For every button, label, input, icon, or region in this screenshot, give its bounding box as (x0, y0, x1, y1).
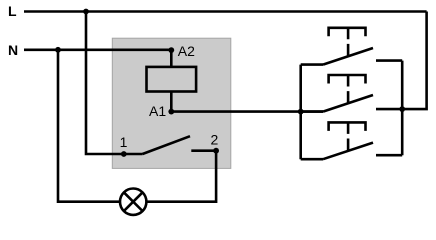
push-button S2 fixed stub (376, 108, 402, 111)
push-button S2 lead (301, 110, 323, 113)
terminal 2 (213, 148, 219, 154)
push-button S3 fixed stub (376, 154, 402, 157)
wire N branch down to lamp (58, 50, 120, 202)
svg-text:L: L (8, 3, 17, 19)
junction L branch (83, 9, 89, 15)
terminal A1 (168, 109, 174, 115)
push-button S1 actuator bracket (329, 28, 366, 37)
coil K1 body (147, 67, 197, 92)
push-button S1 lead (301, 63, 323, 66)
push-button S1 blade (323, 48, 373, 65)
terminal 1 (121, 151, 127, 157)
terminal A2 (168, 47, 174, 53)
coil K1 stem A2 (170, 50, 173, 67)
coil K1 stem A1 (170, 92, 173, 112)
wire L branch down to contact terminal 1 (86, 12, 143, 155)
junction N branch (55, 47, 61, 53)
push-button S1 fixed stub (376, 59, 402, 62)
push-button S2 blade (323, 95, 373, 112)
svg-text:A1: A1 (149, 103, 166, 119)
wire L line (24, 10, 427, 13)
relay K1 enclosure (gray box) (112, 38, 231, 168)
svg-text:N: N (8, 42, 18, 58)
push-button S3 blade (323, 143, 373, 160)
wire contact 2 down to lamp (146, 151, 216, 202)
relay contact fixed stub 2 (191, 149, 216, 152)
lamp E1 cross (124, 192, 143, 211)
push-button S3 actuator stem (347, 122, 350, 151)
wire N line to coil A2 (24, 48, 171, 51)
push-button S1 actuator stem (347, 28, 350, 57)
relay contact blade 1-2 (143, 136, 191, 154)
lamp E1 circle (120, 189, 146, 215)
push-button S2 actuator bracket (329, 75, 366, 84)
svg-text:A2: A2 (178, 43, 195, 59)
push-button S3 actuator bracket (329, 122, 366, 130)
right bus of push-buttons (401, 61, 404, 156)
svg-text:2: 2 (211, 131, 219, 147)
wire A1 to push-button bus (171, 110, 323, 113)
left bus of push-buttons (299, 65, 302, 160)
push-button S3 lead (301, 158, 323, 161)
push-button S2 actuator stem (347, 75, 350, 104)
wire right feed (L down to button bus) (402, 12, 426, 110)
svg-text:1: 1 (120, 134, 128, 150)
junction right bus / feed (399, 106, 405, 112)
junction left bus / A1 wire (298, 109, 304, 115)
